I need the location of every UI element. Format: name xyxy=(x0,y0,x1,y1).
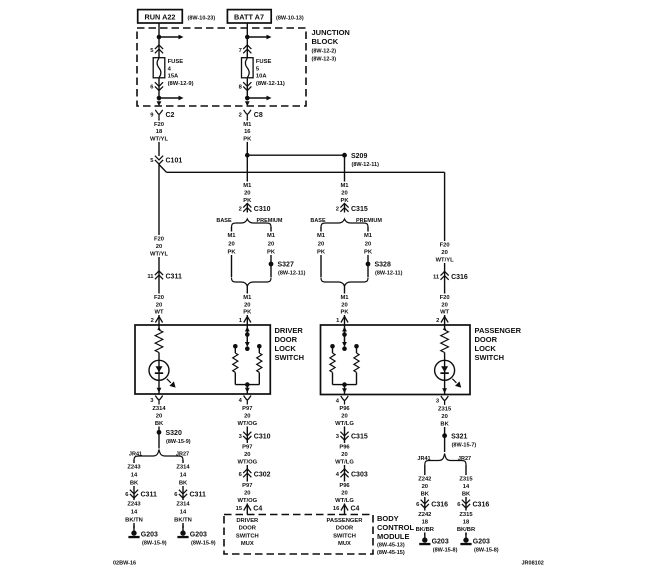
connector C2 pin 9 xyxy=(150,110,174,119)
junction block pin 5 xyxy=(150,45,163,54)
svg-text:10A: 10A xyxy=(256,74,267,80)
svg-text:PK: PK xyxy=(317,250,326,256)
svg-text:15A: 15A xyxy=(168,74,179,80)
svg-text:DOOR: DOOR xyxy=(336,526,354,532)
splice S321 xyxy=(442,433,476,448)
svg-text:CONTROL: CONTROL xyxy=(377,523,414,532)
svg-text:20: 20 xyxy=(244,452,250,458)
junction node at C8 drop xyxy=(245,153,250,158)
svg-text:Z314: Z314 xyxy=(176,502,190,508)
svg-text:BATT A7: BATT A7 xyxy=(234,13,264,22)
ground G203 (passenger JR41) xyxy=(419,533,457,554)
wire S209 to C315 xyxy=(344,155,346,212)
svg-text:JR08102: JR08102 xyxy=(522,561,544,567)
svg-text:14: 14 xyxy=(463,484,470,490)
svg-text:(8W-15-8): (8W-15-8) xyxy=(474,548,499,554)
wire label P96 20 WT/LG upper xyxy=(335,405,355,428)
body control module dashed box xyxy=(224,515,373,555)
junction block dashed box xyxy=(137,28,306,106)
connector C315 pin 3 xyxy=(336,432,368,441)
wire label F20 20 WT driver xyxy=(149,294,169,316)
connector C303 pin 4 xyxy=(336,469,368,479)
wire label Z243 14 BK xyxy=(124,463,144,487)
svg-text:Z243: Z243 xyxy=(127,502,141,508)
svg-text:P97: P97 xyxy=(242,483,252,489)
svg-text:F20: F20 xyxy=(154,295,164,301)
driver switch pin 4 connector xyxy=(239,396,252,405)
junction node with offpage arrow, batt feed xyxy=(245,35,272,40)
svg-text:PASSENGER: PASSENGER xyxy=(475,326,522,335)
arrow exiting junction block at C2 xyxy=(157,101,162,106)
svg-text:S209: S209 xyxy=(351,153,367,160)
wire C310 base branch xyxy=(270,227,272,277)
wire label M1 16 PK xyxy=(237,121,257,143)
svg-text:20: 20 xyxy=(441,414,447,420)
wire driver switch output to pin 4 xyxy=(246,385,248,394)
wire BATT A7 feed to fuse 5 xyxy=(246,23,248,58)
svg-text:BK: BK xyxy=(130,481,139,487)
driver door lock switch title xyxy=(275,326,305,362)
svg-text:WT/OG: WT/OG xyxy=(237,421,257,427)
connector C315 pin 2 xyxy=(336,203,368,213)
wire label F20 20 WT passenger xyxy=(435,294,455,316)
svg-text:JUNCTION: JUNCTION xyxy=(312,28,350,37)
svg-text:02BW-16: 02BW-16 xyxy=(113,561,136,567)
driver switch pin 3 connector xyxy=(150,396,163,405)
svg-text:JR27: JR27 xyxy=(176,452,189,458)
junction node with offpage arrow, fuse 5 output xyxy=(245,96,272,101)
wire label M1 20 PK to C310 xyxy=(237,182,257,205)
svg-text:F20: F20 xyxy=(440,295,450,301)
wire C315 merge to passenger switch pin 1 xyxy=(344,286,346,326)
junction block pin 7 xyxy=(239,45,252,54)
resistor driver switch lock xyxy=(231,353,239,372)
svg-text:G203: G203 xyxy=(473,539,490,546)
svg-text:C316: C316 xyxy=(473,502,490,509)
svg-text:16: 16 xyxy=(244,129,251,135)
svg-text:14: 14 xyxy=(131,510,138,516)
wire label P97 20 WT/OG lower xyxy=(237,482,257,505)
wire driver switch resistor bottoms join xyxy=(234,372,236,384)
svg-text:BASE: BASE xyxy=(216,218,232,224)
passenger switch pin 3 connector xyxy=(436,396,449,405)
wire S320 left branch JR41 xyxy=(133,460,135,528)
wire label F20 20 WT/YL passenger feed xyxy=(435,241,455,264)
svg-text:C311: C311 xyxy=(190,492,206,499)
actuator arrow at driver LED xyxy=(167,379,176,388)
svg-text:16: 16 xyxy=(333,506,340,512)
svg-text:C316: C316 xyxy=(431,502,448,509)
svg-text:18: 18 xyxy=(156,129,163,135)
svg-text:MUX: MUX xyxy=(338,541,351,547)
svg-text:(8W-15-9): (8W-15-9) xyxy=(166,439,191,445)
svg-text:P96: P96 xyxy=(339,445,350,451)
wire C2 to C101 xyxy=(158,117,160,156)
wire passenger pin 3 to splice S321 xyxy=(444,404,446,436)
svg-text:PASSENGER: PASSENGER xyxy=(327,518,364,524)
wire label M1 20 PK to C315 xyxy=(335,182,355,205)
wire label P97 20 WT/OG middle xyxy=(237,443,257,466)
svg-text:BK: BK xyxy=(440,422,449,428)
connector C4 pin 15 xyxy=(236,505,263,513)
wire driver switch right contact to resistor xyxy=(258,348,260,353)
svg-text:11: 11 xyxy=(147,274,154,280)
svg-text:7: 7 xyxy=(239,48,242,54)
wire label P97 20 WT/OG upper xyxy=(237,405,257,428)
wire C310 merge to driver switch pin 1 xyxy=(246,286,248,326)
resistor passenger switch unlock xyxy=(352,353,360,372)
connector C302 pin 6 xyxy=(239,469,271,479)
svg-text:PK: PK xyxy=(243,310,252,316)
svg-text:F20: F20 xyxy=(440,243,450,249)
svg-text:M1: M1 xyxy=(317,233,326,239)
svg-text:BK: BK xyxy=(155,421,164,427)
connector C316 pin 6 (JR41) xyxy=(416,500,448,509)
svg-text:20: 20 xyxy=(422,484,428,490)
svg-text:(8W-10-13): (8W-10-13) xyxy=(276,15,304,21)
arrow into passenger switch pin 2 xyxy=(442,327,447,332)
wire label Z315 20 BK xyxy=(435,405,455,428)
svg-text:C311: C311 xyxy=(141,492,157,499)
svg-text:20: 20 xyxy=(341,191,347,197)
svg-text:BK/TN: BK/TN xyxy=(125,518,143,524)
svg-text:2: 2 xyxy=(436,318,439,324)
svg-text:P97: P97 xyxy=(242,406,252,412)
svg-text:BLOCK: BLOCK xyxy=(312,37,339,46)
wire C101 to driver door lock switch pin 2 xyxy=(158,163,160,325)
splice S327 xyxy=(269,262,306,277)
fuse 4 15A xyxy=(153,58,193,87)
wire C310 premium branch xyxy=(231,227,233,277)
wire S320 to ground splice point xyxy=(158,432,160,448)
junction node with offpage arrow, fuse 4 output xyxy=(157,96,184,101)
svg-text:SWITCH: SWITCH xyxy=(333,533,356,539)
svg-text:C311: C311 xyxy=(166,274,182,281)
wire driver pin 4 to body control module C4 pin 15 xyxy=(246,404,248,515)
svg-text:Z315: Z315 xyxy=(459,477,473,483)
arrow out of driver pin 4 xyxy=(245,388,250,393)
svg-text:20: 20 xyxy=(441,303,447,309)
svg-text:Z315: Z315 xyxy=(459,512,473,518)
svg-text:C8: C8 xyxy=(254,112,263,119)
svg-text:(8W-10-23): (8W-10-23) xyxy=(188,15,216,21)
wire label Z242 18 BK/BR xyxy=(415,511,435,534)
svg-text:14: 14 xyxy=(180,510,187,516)
svg-text:20: 20 xyxy=(228,242,234,248)
svg-text:SWITCH: SWITCH xyxy=(475,353,505,362)
passenger switch pin 4 connector xyxy=(336,396,349,405)
passenger switch pin 2 xyxy=(436,317,448,325)
wire label F20 20 WT/YL driver feed xyxy=(149,235,169,258)
svg-text:JR41: JR41 xyxy=(129,452,142,458)
wire label Z315 14 BK xyxy=(456,475,476,498)
passenger door lock switch title xyxy=(475,326,522,362)
split C315 base/premium xyxy=(321,219,368,228)
ground G203 (passenger JR27) xyxy=(460,533,498,554)
arrow into passenger switch pin 1 xyxy=(342,327,347,332)
svg-text:S328: S328 xyxy=(375,262,391,269)
driver door lock switch box xyxy=(135,325,270,394)
svg-text:SWITCH: SWITCH xyxy=(236,533,259,539)
svg-text:2: 2 xyxy=(239,112,242,118)
svg-text:BK: BK xyxy=(179,481,188,487)
svg-text:WT/OG: WT/OG xyxy=(237,460,257,466)
svg-text:C302: C302 xyxy=(254,472,271,479)
svg-text:20: 20 xyxy=(244,414,250,420)
svg-text:DRIVER: DRIVER xyxy=(236,518,259,524)
wire branch C101 to passenger feed (diagonal) xyxy=(159,165,167,173)
svg-text:M1: M1 xyxy=(227,233,236,239)
driver switch lock contact xyxy=(233,344,238,349)
driver switch unlock contact xyxy=(257,344,262,349)
svg-text:Z315: Z315 xyxy=(438,407,452,413)
wire label Z314 14 BK/TN xyxy=(173,500,193,524)
node passenger door switch mux xyxy=(327,518,364,547)
svg-text:PREMIUM: PREMIUM xyxy=(257,218,283,224)
wire S321 left branch JR41 xyxy=(424,465,426,535)
svg-text:WT: WT xyxy=(154,310,163,316)
arrow into driver switch pin 2 xyxy=(157,327,162,332)
connector C310 pin 3 xyxy=(239,432,271,441)
arrow out of driver pin 3 xyxy=(157,388,162,393)
svg-text:C310: C310 xyxy=(254,434,271,441)
svg-text:BK/TN: BK/TN xyxy=(174,518,192,524)
wire label Z243 14 BK/TN xyxy=(124,500,144,524)
wire label P96 20 WT/LG middle xyxy=(335,443,355,466)
passenger switch wiper xyxy=(342,335,347,348)
svg-text:Z314: Z314 xyxy=(152,406,166,412)
svg-text:14: 14 xyxy=(180,473,187,479)
svg-text:PK: PK xyxy=(267,250,276,256)
junction block pin 6 xyxy=(150,82,163,90)
svg-text:WT/YL: WT/YL xyxy=(150,252,168,258)
svg-text:(8W-15-8): (8W-15-8) xyxy=(433,548,458,554)
ground G203 (JR27) xyxy=(177,526,215,547)
wire driver switch common leg xyxy=(246,325,248,345)
svg-text:C2: C2 xyxy=(166,112,175,119)
svg-text:DOOR: DOOR xyxy=(475,335,498,344)
svg-text:2: 2 xyxy=(151,318,154,324)
svg-text:(8W-12-2): (8W-12-2) xyxy=(312,49,337,55)
svg-text:WT: WT xyxy=(440,310,449,316)
driver switch wiper contact xyxy=(245,346,250,351)
svg-text:C315: C315 xyxy=(351,206,368,213)
svg-text:M1: M1 xyxy=(243,122,252,128)
svg-text:15: 15 xyxy=(236,506,243,512)
wire C8 to splice S209 junction xyxy=(246,117,248,155)
svg-text:M1: M1 xyxy=(364,233,373,239)
wire label M1 20 PK premium branch passenger xyxy=(358,232,378,256)
svg-text:PK: PK xyxy=(227,250,236,256)
svg-text:(8W-45-15): (8W-45-15) xyxy=(377,550,405,556)
wire driver pin 3 to splice S320 xyxy=(158,404,160,433)
svg-text:20: 20 xyxy=(341,452,347,458)
svg-text:WT/OG: WT/OG xyxy=(237,498,257,504)
actuator arrow at passenger LED xyxy=(452,379,461,388)
svg-text:(8W-12-11): (8W-12-11) xyxy=(352,162,380,168)
ground G203 (JR41) xyxy=(128,526,166,547)
svg-text:DOOR: DOOR xyxy=(239,526,257,532)
driver switch pin 1 xyxy=(239,317,251,325)
passenger switch common contact xyxy=(342,332,347,337)
wire passenger pin 4 to body control module C4 pin 16 xyxy=(344,404,346,515)
svg-text:(8W-12-11): (8W-12-11) xyxy=(256,81,285,87)
junction block pin 8 xyxy=(239,82,252,90)
connector C310 pin 2 xyxy=(239,203,271,213)
svg-text:(8W-45-13): (8W-45-13) xyxy=(377,543,405,549)
svg-text:Z242: Z242 xyxy=(418,512,431,518)
driver switch pin 2 xyxy=(151,317,163,325)
merge to driver switch feed xyxy=(232,278,272,287)
svg-text:RUN A22: RUN A22 xyxy=(145,13,176,22)
svg-text:(8W-12-3): (8W-12-3) xyxy=(312,57,337,63)
passenger switch pin 1 xyxy=(336,317,348,325)
node driver door switch mux xyxy=(236,518,259,547)
resistor passenger illumination xyxy=(439,330,450,353)
svg-text:BK/BR: BK/BR xyxy=(457,527,476,533)
connector C316 pin 11 xyxy=(433,271,468,281)
svg-text:LOCK: LOCK xyxy=(275,344,297,353)
resistor passenger switch lock xyxy=(328,353,336,372)
driver switch output junction xyxy=(245,382,250,387)
arrow exiting junction block at C8 xyxy=(245,101,250,106)
svg-text:20: 20 xyxy=(156,244,162,250)
svg-text:F20: F20 xyxy=(154,237,164,243)
svg-text:MODULE: MODULE xyxy=(377,532,410,541)
LED passenger switch illumination xyxy=(435,360,455,380)
wire RUN A22 feed to fuse 4 xyxy=(158,23,160,58)
wire fuse 4 output to C2 xyxy=(158,78,160,101)
wire label Z314 20 BK xyxy=(149,405,169,428)
svg-text:BK: BK xyxy=(421,492,430,498)
LED driver switch illumination xyxy=(149,360,169,380)
body control module title xyxy=(377,514,414,556)
svg-text:Z243: Z243 xyxy=(127,465,141,471)
merge to passenger switch feed xyxy=(321,278,368,287)
connector C311 pin 11 xyxy=(147,271,182,281)
svg-text:WT/YL: WT/YL xyxy=(150,136,168,142)
svg-text:M1: M1 xyxy=(267,233,276,239)
splice S209 xyxy=(342,153,379,168)
svg-text:20: 20 xyxy=(441,250,447,256)
svg-text:20: 20 xyxy=(244,191,250,197)
svg-text:20: 20 xyxy=(341,491,347,497)
svg-text:P97: P97 xyxy=(242,445,252,451)
svg-text:M1: M1 xyxy=(340,295,349,301)
svg-text:C310: C310 xyxy=(254,206,271,213)
svg-text:S320: S320 xyxy=(166,430,182,437)
svg-text:(8W-12-9): (8W-12-9) xyxy=(168,81,194,87)
svg-text:C315: C315 xyxy=(351,434,368,441)
svg-text:DRIVER: DRIVER xyxy=(275,326,304,335)
wire S321 stem xyxy=(444,436,446,452)
passenger switch lock contact xyxy=(330,344,335,349)
svg-text:2: 2 xyxy=(239,207,242,213)
wire label M1 20 PK base branch passenger xyxy=(311,232,331,256)
svg-text:WT/LG: WT/LG xyxy=(335,421,354,427)
wire passenger switch resistor bottoms join xyxy=(332,372,334,384)
junction node with offpage arrow, run feed xyxy=(157,35,184,40)
svg-text:(8W-12-11): (8W-12-11) xyxy=(278,271,306,277)
wire driver switch illumination leg xyxy=(158,325,160,394)
wire label M1 20 PK to passenger switch xyxy=(335,294,355,316)
svg-text:(8W-15-9): (8W-15-9) xyxy=(142,541,167,547)
connector box BATT A7 xyxy=(227,10,271,23)
split S321 to JR41/JR27 xyxy=(425,454,466,466)
svg-text:PK: PK xyxy=(340,310,349,316)
svg-text:P96: P96 xyxy=(339,483,350,489)
svg-text:20: 20 xyxy=(156,303,162,309)
wire passenger switch common leg xyxy=(344,325,346,345)
svg-text:BK/BR: BK/BR xyxy=(416,527,435,533)
svg-text:BODY: BODY xyxy=(377,514,399,523)
wire label Z314 14 BK xyxy=(173,463,193,487)
svg-text:Z314: Z314 xyxy=(176,465,190,471)
svg-text:11: 11 xyxy=(433,275,440,281)
svg-text:(8W-15-7): (8W-15-7) xyxy=(452,442,477,448)
split C310 base/premium xyxy=(232,219,272,228)
svg-text:G203: G203 xyxy=(190,532,207,539)
svg-text:C101: C101 xyxy=(166,158,183,165)
svg-text:20: 20 xyxy=(341,414,347,420)
svg-text:S321: S321 xyxy=(451,433,467,440)
svg-text:G203: G203 xyxy=(141,532,158,539)
passenger switch wiper contact xyxy=(342,346,347,351)
passenger switch output junction xyxy=(342,382,347,387)
wire label F20 18 WT/YL xyxy=(149,121,169,143)
svg-text:Z242: Z242 xyxy=(418,477,431,483)
arrow out of passenger pin 3 xyxy=(442,388,447,393)
wire driver switch left contact to resistor xyxy=(234,348,236,353)
splice S328 xyxy=(366,262,403,277)
svg-text:M1: M1 xyxy=(243,183,252,189)
connector box RUN A22 xyxy=(138,10,183,23)
connector C4 pin 16 xyxy=(333,505,360,513)
wire C315 premium branch xyxy=(367,227,369,277)
svg-text:PK: PK xyxy=(243,136,252,142)
svg-text:JR41: JR41 xyxy=(417,456,430,462)
svg-text:M1: M1 xyxy=(243,295,252,301)
svg-text:20: 20 xyxy=(365,242,371,248)
wire label M1 20 PK to driver switch xyxy=(237,294,257,316)
wire feed drop to passenger door lock switch pin 2 xyxy=(444,172,446,325)
wire passenger switch output to pin 4 xyxy=(344,385,346,395)
svg-text:C303: C303 xyxy=(351,472,368,479)
svg-text:G203: G203 xyxy=(432,539,449,546)
resistor driver illumination xyxy=(154,330,165,353)
svg-text:BK: BK xyxy=(462,492,471,498)
svg-text:(8W-12-11): (8W-12-11) xyxy=(375,271,403,277)
passenger switch unlock contact xyxy=(354,344,359,349)
connector C311 pin 6 (JR41) xyxy=(125,490,157,499)
svg-text:18: 18 xyxy=(422,520,429,526)
svg-text:20: 20 xyxy=(156,414,162,420)
wire label M1 20 PK premium branch xyxy=(261,232,281,256)
svg-text:S327: S327 xyxy=(278,262,294,269)
wire S320 right branch JR27 xyxy=(182,460,184,528)
wire passenger illumination leg xyxy=(444,325,446,395)
svg-text:20: 20 xyxy=(268,242,274,248)
svg-text:PK: PK xyxy=(364,250,373,256)
wire junction to C310 xyxy=(246,155,248,212)
svg-text:FUSE: FUSE xyxy=(256,59,272,65)
svg-text:JR27: JR27 xyxy=(458,456,471,462)
wire label Z315 18 BK/BR xyxy=(456,511,476,534)
svg-text:C4: C4 xyxy=(351,505,360,512)
svg-text:C4: C4 xyxy=(253,505,262,512)
svg-text:F20: F20 xyxy=(154,122,164,128)
wire S321 right branch JR27 xyxy=(465,465,467,535)
